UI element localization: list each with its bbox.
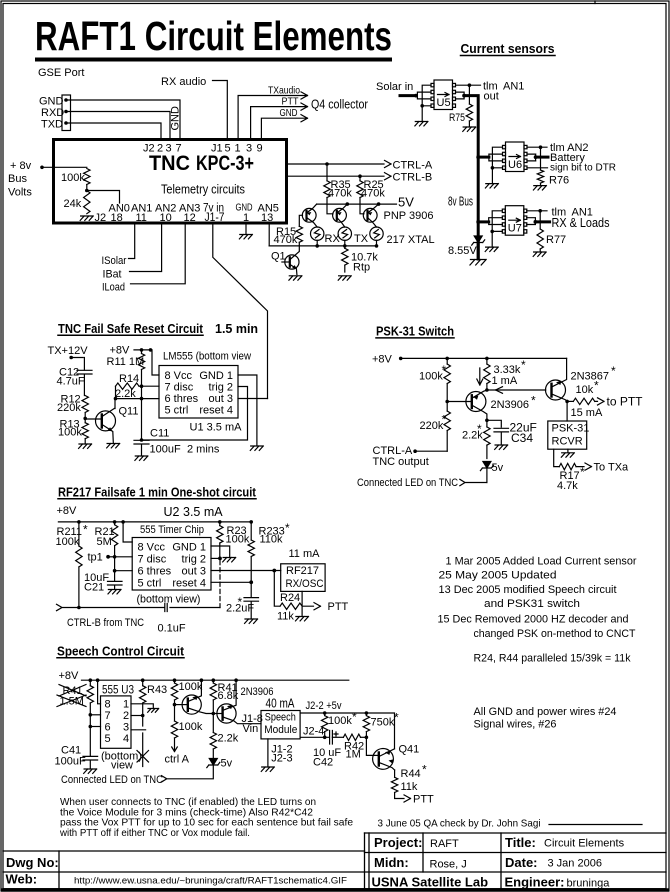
ground U6 [485,184,498,188]
svg-text:R76: R76 [549,175,569,187]
svg-text:220k: 220k [57,402,81,414]
ground U7 [485,247,498,251]
title block divider main double [364,833,366,889]
transistor Q41 [373,749,395,771]
zener 5v speech [207,759,220,768]
wire CTRL-A to 220k [415,450,447,452]
svg-text:12: 12 [184,212,196,224]
transistor Q11 [85,399,115,443]
IC U3 555 box [101,696,132,748]
wire AN2 IBat [130,224,162,272]
ground Q11 [107,444,120,448]
title block divider Dwg [58,851,60,889]
svg-text:100k: 100k [328,715,352,727]
wire GND1 to ground [238,375,257,446]
wire sign bit [527,167,548,169]
transistor Qs2 2N3906 [213,680,261,724]
transistor Q1 [282,246,299,275]
svg-text:13: 13 [261,212,273,224]
wire TXaudio arrow [238,92,307,139]
svg-text:RCVR: RCVR [552,435,583,447]
svg-text:+8V: +8V [57,505,78,517]
svg-text:Telemetry circuits: Telemetry circuits [161,182,245,197]
zener 8.55V on bus [472,236,485,245]
ground 8v bus [477,243,480,259]
svg-text:U1 3.5 mA: U1 3.5 mA [190,422,243,434]
capacitor C12 4.7uF [77,370,92,395]
crossout 1.5M label [57,695,86,707]
svg-text:5v: 5v [221,757,233,769]
svg-text:TNC: TNC [149,152,190,175]
node R42/750k [365,736,369,740]
svg-text:TX+12V: TX+12V [48,345,89,357]
svg-text:3.33k: 3.33k [494,364,521,376]
svg-text:out: out [484,91,499,103]
svg-text:CTRL-B: CTRL-B [393,172,433,184]
wire 8v Bus thick [464,96,478,259]
svg-text:470k: 470k [274,234,298,246]
ground 10.7k [338,276,351,280]
svg-text:*: * [394,711,399,725]
TNC KPC-3+ box [54,140,287,224]
svg-text:1: 1 [243,212,249,224]
wire U6 strap to ground [491,168,493,183]
svg-text:RF217: RF217 [286,565,319,577]
capacitor C11 100uF [134,440,149,455]
node pin7 U3 [89,713,93,717]
svg-text:Signal wires, #26: Signal wires, #26 [474,719,557,731]
wire Solar in thick [400,94,416,97]
resistor R233* 110k [250,522,252,540]
wire out3 node down to R24 [274,571,280,607]
svg-text:100uF: 100uF [55,755,86,767]
svg-text:18: 18 [111,212,123,224]
wire PSK box right lead to ground [567,449,569,452]
svg-text:7: 7 [105,710,111,722]
svg-text:C21: C21 [84,582,104,594]
svg-text:*: * [352,710,357,724]
svg-text:C42: C42 [313,756,333,768]
transistor Qs1 [175,680,214,714]
lamp TX [338,227,351,240]
lamp RX [311,227,324,240]
svg-text:view: view [111,759,133,771]
svg-text:Speech: Speech [265,711,296,723]
node R14 right / disc [140,384,144,388]
svg-text:100k: 100k [61,172,85,184]
capacitor pin2 junction [142,716,144,727]
title block bottom line [3,888,666,890]
wire J2-4 line [300,736,329,738]
transistor PNP T1 [302,204,317,227]
svg-text:100k: 100k [58,427,82,439]
wire thres U2 [115,557,133,571]
svg-text:Date:: Date: [505,855,538,870]
svg-text:USNA Satellite Lab: USNA Satellite Lab [372,874,489,889]
svg-text:4.7uF: 4.7uF [57,375,85,387]
wire to C34 [487,420,501,427]
svg-text:R14: R14 [119,373,139,385]
ground R13 [79,444,92,448]
svg-text:All GND and power wires #24: All GND and power wires #24 [474,706,617,718]
svg-text:Connected LED on TNC: Connected LED on TNC [357,477,458,489]
ground C34 [495,445,508,449]
sensor U7 [502,206,527,236]
wire zener to LED line speech [162,766,214,783]
resistor R25 470k [360,176,364,214]
bottom border band [1,888,669,891]
resistor R17* 4.7k horizontal [559,463,576,469]
arrow left on base line [496,387,503,394]
sensor U5 [431,80,456,110]
svg-text:15 Dec Removed 2000 HZ decoder: 15 Dec Removed 2000 HZ decoder and [438,614,629,626]
svg-text:with PTT off if either TNC or: with PTT off if either TNC or Vox module… [59,827,250,839]
svg-text:24k: 24k [64,198,82,210]
node thres U2 [113,569,117,573]
svg-text:9: 9 [257,143,263,155]
wire pin8 U3 to rail [98,680,101,704]
node CTRL-A [413,449,417,453]
resistor R211* 100k [78,522,80,546]
capacitor C42 series [330,731,338,745]
svg-text:Midn:: Midn: [374,855,409,870]
svg-text:8: 8 [105,699,111,711]
svg-text:7 disc: 7 disc [165,382,194,394]
svg-text:out 3: out 3 [209,393,233,405]
wire speech +5v to Q41 [300,713,394,749]
resistor R43 [142,680,144,686]
svg-text:RX/OSC: RX/OSC [286,578,324,590]
svg-text:15 mA: 15 mA [571,407,603,419]
svg-text:3 Jan 2006: 3 Jan 2006 [548,857,602,869]
sensor U6 [503,142,528,172]
wire +8V rail [134,350,159,375]
svg-text:reset 4: reset 4 [172,577,206,589]
svg-text:Speech Control Circuit: Speech Control Circuit [57,644,185,658]
wire pin2 U3 [131,715,143,717]
wire trig2 stub [211,557,220,559]
resistor R14 2.2k horizontal [116,383,140,389]
wire +8V rail psk [401,357,567,359]
svg-text:Q11: Q11 [119,406,139,418]
svg-text:100uF: 100uF [150,443,181,455]
wire pin6 U3 [90,726,100,728]
wire GND pin1 [245,224,247,235]
connector J2 GSE [62,95,71,131]
box PSK-31 RCVR [548,421,587,449]
svg-text:1M: 1M [346,748,361,760]
wire reset4 U2 [211,581,251,583]
svg-text:8v Bus: 8v Bus [448,195,473,209]
svg-text:GND: GND [280,107,298,119]
title block divider title [500,833,502,889]
svg-text:R24, R44 paralleled 15/39k = 1: R24, R44 paralleled 15/39k = 11k [474,653,631,665]
ground Q1 [289,276,302,280]
svg-text:PTT: PTT [413,793,434,805]
svg-text:J2-3: J2-3 [271,753,292,765]
svg-text:1 Mar 2005 Added Load Current: 1 Mar 2005 Added Load Current sensor [446,556,637,568]
wire AN5 pin13 down [268,224,270,246]
svg-text:25 May 2005 Updated: 25 May 2005 Updated [439,570,557,582]
capacitor C21 10uF [108,571,123,589]
wire U6 input thick [478,156,489,159]
svg-text:13 Dec 2005 modified Speech c: 13 Dec 2005 modified Speech circuit [439,584,617,596]
svg-text:J2: J2 [95,212,107,224]
svg-text:Vin: Vin [243,723,259,735]
wire disc U2 [115,556,133,558]
wire CTRL-A [287,160,391,167]
title underline [35,58,392,62]
svg-text:3: 3 [123,722,129,734]
svg-text:220k: 220k [420,420,444,432]
svg-text:GND: GND [39,96,64,108]
wire U6 tlm AN2 [527,146,547,148]
svg-text:Title:: Title: [505,835,536,850]
svg-text:5 ctrl: 5 ctrl [165,405,189,417]
svg-text:C11: C11 [150,428,169,440]
svg-text:PTT: PTT [328,601,349,613]
svg-text:R44: R44 [401,768,421,780]
capacitor C41 100uF [83,756,98,768]
node R35 top [325,162,329,166]
resistor R76 [540,147,542,170]
wire U5 left strap pins 1-4 [422,85,431,106]
svg-text:reset 4: reset 4 [199,405,233,417]
svg-text:555 Timer Chip: 555 Timer Chip [140,524,204,536]
transistor PNP T2 [333,204,348,227]
svg-text:+ 8v: + 8v [10,160,32,172]
resistor R42 1M horizontal [343,734,360,740]
IC U1 LM555 box [159,366,238,419]
svg-text:R43: R43 [147,684,167,696]
wire to PSK-31 box [566,401,568,421]
ground TNC pin1 [239,235,252,239]
wire LED chevron [460,479,487,485]
svg-text:3.5 mA: 3.5 mA [183,505,223,519]
svg-text:tp1: tp1 [88,551,103,563]
wire AN1 ISolar [129,224,135,259]
svg-text:11k: 11k [401,781,418,793]
svg-text:2N3867: 2N3867 [571,370,610,382]
wire 8v to divider [42,166,87,168]
svg-text:100k: 100k [419,371,443,383]
resistor 220k* [446,402,448,412]
resistor R21 5M [114,522,116,525]
wire disc pin [139,385,159,387]
wire U7 left strap [492,211,502,232]
zener 5v psk [480,462,493,471]
resistor R35 470k [327,164,333,214]
wire GND1 U2 to ground [211,546,230,557]
svg-text:J2-4: J2-4 [303,725,324,737]
svg-text:6: 6 [105,722,111,734]
svg-text:4.7k: 4.7k [557,480,578,492]
capacitor 22uF C34 [494,428,509,444]
svg-text:ILoad: ILoad [102,282,125,294]
svg-text:To TXa: To TXa [594,462,630,474]
resistor 3.33k* 1 mA [486,358,488,364]
resistor R11 1M [141,350,143,354]
box Speech Module [261,711,300,739]
svg-text:http://www.ew.usna.edu/~brunin: http://www.ew.usna.edu/~bruninga/craft/R… [74,875,347,886]
wire U6 left strap [492,147,502,168]
resistor R13 100k [84,418,86,422]
svg-text:U5: U5 [437,97,451,109]
wire deleted branch with X [142,733,144,767]
box RF217 RX/OSC [281,564,325,592]
svg-text:*: * [285,521,290,535]
resistor 10k* to PTT [567,400,573,402]
svg-text:ISolar: ISolar [102,255,127,267]
svg-text:2 mins: 2 mins [187,443,220,455]
resistor 100k* [446,358,448,364]
svg-text:TNC Fail Safe Reset Circuit: TNC Fail Safe Reset Circuit [58,322,204,336]
svg-text:J1-7: J1-7 [205,212,225,224]
svg-text:TNC output: TNC output [373,456,429,468]
svg-text:CTRL-A: CTRL-A [393,159,433,171]
resistor R41 6.8k [212,680,214,683]
svg-text:11: 11 [136,212,147,224]
svg-text:Rtp: Rtp [353,262,370,274]
wire +8V rail rf [58,521,251,523]
crossout R41 label [59,685,86,697]
resistor 100k first [174,680,176,683]
svg-text:and PSK31 switch: and PSK31 switch [484,598,580,610]
svg-text:U2: U2 [164,505,180,519]
svg-text:3 June 05 QA check by Dr. Jo: 3 June 05 QA check by Dr. John Sagi [378,818,541,830]
svg-text:Volts: Volts [8,187,32,199]
svg-text:+8V: +8V [110,344,131,356]
svg-text:Rose, J: Rose, J [430,858,467,870]
svg-text:Connected LED on TNC: Connected LED on TNC [61,774,163,786]
svg-text:U6: U6 [508,159,522,171]
svg-text:10: 10 [160,212,172,224]
svg-text:R11 1M: R11 1M [107,356,145,368]
ground R77 [533,252,546,256]
wire R14 left leg [115,386,117,398]
svg-text:0.1uF: 0.1uF [158,623,186,635]
resistor R41 1.5M (crossed out) [89,680,91,686]
svg-text:*: * [611,364,616,378]
wire RX audio to J1 pin5 [213,81,228,140]
svg-text:U7: U7 [508,223,522,235]
ground 2.2uF [245,619,258,623]
svg-text:R77: R77 [546,234,566,246]
svg-text:8 Vcc: 8 Vcc [138,541,166,553]
svg-text:Bus: Bus [8,173,27,185]
svg-text:100k: 100k [56,536,80,548]
svg-text:11 mA: 11 mA [289,548,321,560]
svg-text:*: * [521,358,526,372]
ground C41 [84,769,97,773]
connector pin dots [64,98,68,102]
svg-text:Engineer:: Engineer: [505,874,565,889]
node 3.33k bottom [485,388,489,392]
svg-text:8.55V: 8.55V [448,245,477,257]
svg-text:*: * [477,422,482,436]
svg-text:Module: Module [264,724,297,736]
svg-text:R24: R24 [280,592,300,604]
wire 7v in J1-7 to U1 out3 [213,224,268,399]
title block row line 2 [365,852,667,854]
svg-text:750k: 750k [371,716,395,728]
wire thres pin [116,398,160,400]
wire U7 tlm AN1 [527,210,547,212]
svg-text:217 XTAL: 217 XTAL [387,234,435,246]
node base 2N3906 [445,400,449,404]
wire U7 input pins [489,218,503,225]
wire to C12 [71,358,84,371]
resistor R23 100k [219,522,221,526]
svg-text:2N3906: 2N3906 [491,399,530,411]
svg-text:sign bit to DTR: sign bit to DTR [550,163,616,174]
wire U7 input thick [478,220,489,223]
resistor 10.7k Rtp [344,246,346,272]
title block divider values [422,833,424,872]
node base Qs1 [173,703,177,707]
transistor PNP T3 [363,204,378,227]
node divider tap [85,189,89,193]
node R12/R13 [83,417,87,421]
resistor 100k second (ctrl A) [174,705,176,721]
svg-text:*: * [83,523,88,537]
svg-text:RXD: RXD [41,107,64,119]
wire U6 input pins [489,154,503,161]
svg-text:*: * [442,413,447,427]
svg-text:IBat: IBat [103,269,122,281]
resistor R77 [539,211,541,229]
ground R76 [533,186,546,190]
ground C11 [135,456,148,460]
svg-text:5: 5 [105,733,111,745]
node base Qs2 [212,712,216,716]
svg-text:Current sensors: Current sensors [461,41,555,56]
svg-text:6 thres: 6 thres [165,393,199,405]
ground C21 [108,590,121,594]
svg-text:Dwg No:: Dwg No: [6,855,59,870]
svg-text:RAFT1 Circuit Elements: RAFT1 Circuit Elements [35,13,392,59]
svg-text:2: 2 [123,710,129,722]
svg-text:Web:: Web: [6,871,38,886]
resistor R44* 11k [394,770,396,777]
node emitter 2N3867 [565,400,569,404]
wire base Q41 [366,737,374,755]
node bus to U6 [476,155,480,159]
resistor 2.2k speech [212,714,214,733]
wire +8V rail speech [82,679,349,681]
svg-text:Q41: Q41 [399,743,420,755]
resistor R75 [468,85,470,104]
wire base line to 2N3867 [487,389,546,391]
svg-text:PSK-31 Switch: PSK-31 Switch [376,324,454,338]
svg-text:100k: 100k [179,721,203,733]
svg-text:PSK-31: PSK-31 [552,422,590,434]
wire CTRL-B [287,173,391,180]
wire pin7 U3 [90,714,100,716]
svg-text:RX & Loads: RX & Loads [552,215,610,230]
wire U5 input pins [417,92,431,99]
wire U5 tlm out [456,84,481,86]
svg-text:*: * [594,379,599,393]
svg-text:10k: 10k [576,384,594,396]
wire PSK box to R17 [554,449,560,466]
svg-text:RF217 Failsafe 1 min One-shot: RF217 Failsafe 1 min One-shot circuit [58,485,257,499]
svg-text:trig 2: trig 2 [209,382,233,394]
lamp 217 XTAL [370,227,383,240]
svg-text:(bottom view): (bottom view) [137,593,201,605]
node C11 top [140,438,144,442]
wire GND arrow [261,115,307,139]
